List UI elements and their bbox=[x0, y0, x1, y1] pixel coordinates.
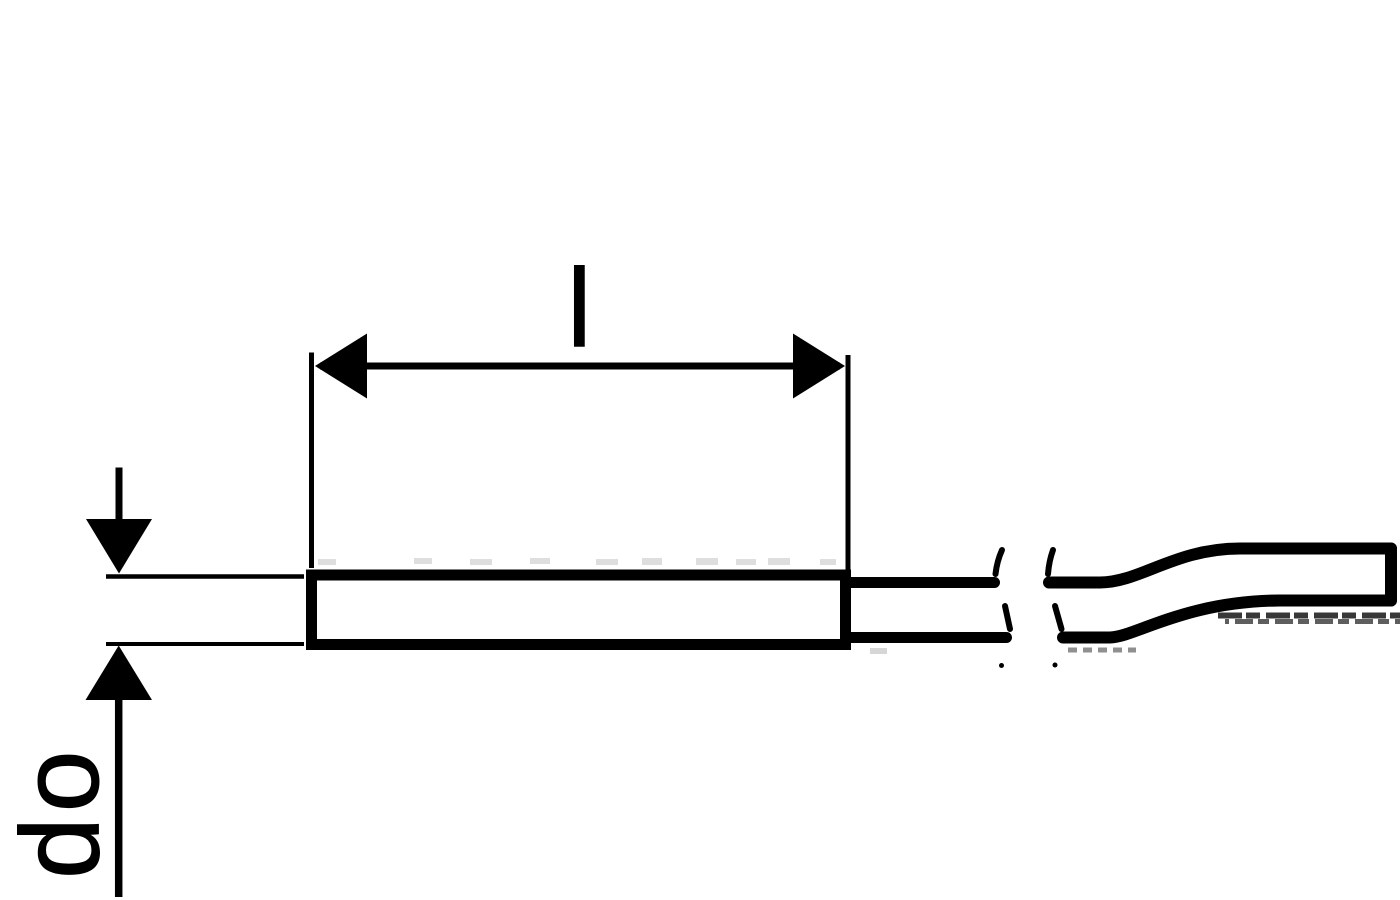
sheath tube bottom line bbox=[851, 632, 1007, 643]
cable end cap right bbox=[1385, 549, 1397, 601]
arrowhead upper (do dimension, points down to top line) bbox=[86, 519, 152, 574]
dimension line l bbox=[320, 363, 840, 370]
arrowhead left of l dimension bbox=[315, 334, 367, 399]
svg-text:do: do bbox=[0, 746, 122, 879]
extension line left (for l dimension) bbox=[309, 353, 314, 569]
cable top edge bbox=[1049, 549, 1391, 583]
break mark 1 lower dash bbox=[1005, 606, 1010, 629]
extension line right (for l dimension) bbox=[846, 355, 851, 570]
arrow shaft lower (do dimension) bbox=[115, 697, 123, 897]
break mark 2 upper dash bbox=[1048, 550, 1053, 574]
arrow shaft upper (do dimension, pointing down) bbox=[116, 468, 123, 526]
break mark 2 dot bbox=[1053, 663, 1058, 668]
cable bottom edge bbox=[1063, 601, 1391, 638]
break mark 1 upper dash bbox=[996, 550, 1003, 574]
arrowhead right of l dimension bbox=[793, 334, 845, 399]
sheath tube top line bbox=[851, 577, 995, 588]
scan artifact smudge below sheath tube bbox=[870, 648, 887, 654]
scan artifact band under cable bottom right bbox=[1218, 613, 1400, 619]
probe body rectangle bbox=[312, 575, 846, 645]
svg-text:l: l bbox=[567, 246, 592, 370]
scan artifact under cable bottom left bbox=[1068, 648, 1136, 653]
extension line top (for do diameter, upper) bbox=[106, 574, 304, 579]
scan artifact smudges above probe body bbox=[318, 559, 336, 565]
break mark 1 dot bbox=[999, 663, 1004, 668]
break mark 2 lower dash bbox=[1055, 606, 1062, 629]
arrowhead lower (do dimension, points up to bottom line) bbox=[86, 646, 153, 701]
extension line bottom (for do diameter, lower) bbox=[106, 642, 304, 646]
